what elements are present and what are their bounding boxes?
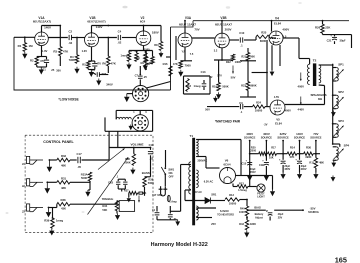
svg-text:SP3: SP3 xyxy=(338,119,344,123)
svg-text:70K: 70K xyxy=(145,62,150,66)
svg-text:25: 25 xyxy=(51,68,55,72)
svg-text:400V: 400V xyxy=(285,109,291,113)
svg-text:6C4: 6C4 xyxy=(140,20,146,24)
svg-text:R16: R16 xyxy=(163,62,168,66)
svg-text:400V: 400V xyxy=(263,132,270,136)
svg-text:R7: R7 xyxy=(129,49,133,53)
svg-text:25V: 25V xyxy=(211,222,216,226)
svg-text:3.2: 3.2 xyxy=(214,50,218,53)
svg-text:*LOW NOISE: *LOW NOISE xyxy=(58,98,79,102)
svg-text:70V: 70V xyxy=(194,27,199,31)
svg-text:340V: 340V xyxy=(106,82,113,86)
svg-text:450V: 450V xyxy=(284,168,290,171)
svg-text:400V: 400V xyxy=(282,28,289,32)
svg-text:.25: .25 xyxy=(143,75,147,79)
svg-text:1800: 1800 xyxy=(250,222,256,226)
svg-text:R33A: R33A xyxy=(81,173,88,177)
svg-text:5000: 5000 xyxy=(134,57,140,60)
svg-text:R36: R36 xyxy=(148,178,153,182)
svg-text:C1B: C1B xyxy=(259,164,264,167)
svg-text:6EU7(12AX7): 6EU7(12AX7) xyxy=(33,20,51,24)
svg-text:*MATCHED PAIR: *MATCHED PAIR xyxy=(215,119,241,123)
svg-text:47K: 47K xyxy=(111,61,116,65)
svg-text:48K: 48K xyxy=(61,164,66,168)
svg-text:SOURCE: SOURCE xyxy=(244,135,256,139)
svg-text:.02: .02 xyxy=(117,41,121,45)
svg-text:50V: 50V xyxy=(205,107,210,111)
svg-text:EL84: EL84 xyxy=(274,22,281,26)
svg-text:BIAS: BIAS xyxy=(254,205,261,209)
svg-text:R14: R14 xyxy=(290,146,296,150)
svg-text:V4: V4 xyxy=(275,16,279,20)
svg-text:6EU7 12AX7: 6EU7 12AX7 xyxy=(179,22,196,26)
svg-text:R31: R31 xyxy=(61,177,67,181)
svg-text:140V: 140V xyxy=(44,26,51,30)
svg-text:SW1: SW1 xyxy=(168,167,174,171)
svg-text:R3: R3 xyxy=(53,50,57,54)
svg-text:SR1: SR1 xyxy=(211,192,217,196)
svg-text:C17: C17 xyxy=(77,152,83,156)
svg-text:400V: 400V xyxy=(298,84,305,88)
svg-text:440V: 440V xyxy=(298,108,305,112)
svg-text:50K: 50K xyxy=(102,208,107,212)
svg-text:300: 300 xyxy=(56,69,61,73)
svg-text:47K: 47K xyxy=(173,62,178,66)
svg-text:C9: C9 xyxy=(239,101,243,105)
svg-text:1M: 1M xyxy=(28,44,33,48)
svg-text:R24: R24 xyxy=(256,100,261,104)
svg-text:+: + xyxy=(295,157,297,161)
svg-text:R11: R11 xyxy=(309,161,314,165)
svg-text:400V: 400V xyxy=(246,132,253,136)
svg-text:V3B: V3B xyxy=(220,16,227,20)
svg-text:SP2: SP2 xyxy=(338,90,344,94)
svg-text:R2: R2 xyxy=(30,59,34,63)
svg-text:C2: C2 xyxy=(69,30,73,34)
svg-text:C19: C19 xyxy=(149,143,154,147)
svg-text:70V: 70V xyxy=(313,132,318,136)
svg-text:R22: R22 xyxy=(226,60,231,64)
svg-text:180V: 180V xyxy=(152,30,159,34)
svg-text:6CA4: 6CA4 xyxy=(223,162,231,166)
svg-text:6EU7 12AX7: 6EU7 12AX7 xyxy=(215,22,232,26)
svg-text:1500: 1500 xyxy=(144,49,150,52)
svg-text:SOURCE: SOURCE xyxy=(294,135,306,139)
svg-text:R19: R19 xyxy=(212,84,217,88)
svg-text:450V: 450V xyxy=(250,171,256,174)
svg-text:1meg: 1meg xyxy=(121,53,128,57)
svg-text:C21: C21 xyxy=(327,38,332,42)
svg-text:R39: R39 xyxy=(44,219,50,223)
svg-text:C15: C15 xyxy=(241,161,246,165)
svg-text:R30: R30 xyxy=(306,146,312,150)
svg-text:165: 165 xyxy=(335,255,347,263)
svg-text:5V AC: 5V AC xyxy=(195,191,202,194)
svg-text:C5: C5 xyxy=(92,68,96,72)
svg-text:48K: 48K xyxy=(319,161,324,165)
svg-text:BASS: BASS xyxy=(142,171,150,175)
svg-text:.02: .02 xyxy=(209,76,213,79)
svg-text:.003: .003 xyxy=(101,72,107,76)
svg-text:300V: 300V xyxy=(301,168,307,171)
svg-text:SP1: SP1 xyxy=(338,63,344,67)
svg-text:R5: R5 xyxy=(82,62,86,66)
svg-text:22K: 22K xyxy=(325,26,330,30)
svg-text:R38: R38 xyxy=(60,198,66,202)
svg-text:470: 470 xyxy=(96,62,101,66)
svg-text:J2: J2 xyxy=(22,184,25,188)
svg-text:1.5meg: 1.5meg xyxy=(238,189,247,192)
svg-text:R26: R26 xyxy=(315,26,321,30)
svg-text:-35V: -35V xyxy=(310,207,316,211)
svg-text:500K: 500K xyxy=(222,84,228,88)
svg-text:TREBLE: TREBLE xyxy=(102,197,114,201)
svg-text:C10: C10 xyxy=(239,31,245,35)
svg-text:R23: R23 xyxy=(241,84,246,88)
svg-text:R32: R32 xyxy=(61,154,67,158)
svg-text:1000: 1000 xyxy=(239,211,245,214)
svg-text:R42: R42 xyxy=(239,222,244,226)
svg-text:48K: 48K xyxy=(61,186,66,190)
svg-text:6EU7(12AX7): 6EU7(12AX7) xyxy=(87,20,105,24)
svg-text:390K: 390K xyxy=(305,155,311,159)
svg-text:CONTROL PANEL: CONTROL PANEL xyxy=(43,140,74,144)
svg-text:1.3V: 1.3V xyxy=(82,49,88,53)
svg-text:C4: C4 xyxy=(118,30,122,34)
svg-text:R13: R13 xyxy=(239,182,244,186)
svg-text:8Ω: 8Ω xyxy=(318,97,323,101)
svg-text:390K: 390K xyxy=(250,84,256,88)
svg-text:LIGHT: LIGHT xyxy=(257,196,265,199)
svg-text:4.5V: 4.5V xyxy=(274,96,279,99)
svg-text:VOLUME: VOLUME xyxy=(130,143,143,147)
svg-text:R18: R18 xyxy=(186,84,191,88)
svg-text:17V: 17V xyxy=(217,74,222,78)
svg-text:140V: 140V xyxy=(296,132,303,136)
svg-text:SOURCE: SOURCE xyxy=(277,135,289,139)
svg-text:TO HEATERS: TO HEATERS xyxy=(217,213,234,217)
svg-text:10K: 10K xyxy=(269,157,274,160)
svg-text:R37: R37 xyxy=(124,190,129,193)
svg-text:C7: C7 xyxy=(135,74,139,78)
svg-text:.02: .02 xyxy=(68,41,72,45)
svg-text:43K: 43K xyxy=(61,207,66,211)
svg-text:30µF: 30µF xyxy=(340,39,346,43)
svg-text:R12: R12 xyxy=(229,193,234,197)
svg-text:200V: 200V xyxy=(225,27,232,31)
svg-text:+: + xyxy=(266,209,268,213)
svg-text:R1: R1 xyxy=(18,44,22,48)
svg-text:SOURCE: SOURCE xyxy=(261,135,273,139)
svg-text:R6: R6 xyxy=(102,61,106,65)
svg-text:EL84: EL84 xyxy=(275,121,282,125)
svg-text:1meg: 1meg xyxy=(56,219,64,223)
svg-text:-2V: -2V xyxy=(264,123,268,126)
svg-text:C13: C13 xyxy=(201,70,206,74)
svg-text:47K: 47K xyxy=(63,50,69,54)
svg-text:1.3V: 1.3V xyxy=(42,49,48,53)
svg-text:R21: R21 xyxy=(241,56,246,59)
svg-text:500K: 500K xyxy=(81,176,87,180)
svg-text:SOURCE: SOURCE xyxy=(310,135,322,139)
svg-text:J1: J1 xyxy=(22,162,25,166)
svg-text:50V: 50V xyxy=(231,75,236,79)
svg-text:6.3V AC: 6.3V AC xyxy=(204,180,214,183)
svg-text:47K: 47K xyxy=(290,155,295,159)
svg-text:90K: 90K xyxy=(250,56,255,59)
svg-text:J3: J3 xyxy=(22,209,25,213)
svg-text:10000: 10000 xyxy=(255,109,263,113)
svg-text:7.5: 7.5 xyxy=(190,53,194,56)
svg-text:25V: 25V xyxy=(278,216,283,219)
svg-text:+: + xyxy=(262,159,264,163)
svg-text:R10: R10 xyxy=(154,44,159,47)
svg-text:790K: 790K xyxy=(69,58,75,62)
svg-text:SOURCE: SOURCE xyxy=(308,211,319,214)
svg-text:+: + xyxy=(330,34,332,38)
svg-text:R25: R25 xyxy=(261,30,267,34)
svg-text:6.3VAC: 6.3VAC xyxy=(220,209,229,213)
svg-text:T1: T1 xyxy=(190,134,194,138)
svg-text:1meg: 1meg xyxy=(194,84,201,88)
svg-text:10000: 10000 xyxy=(229,201,237,205)
svg-text:325V: 325V xyxy=(280,132,287,136)
svg-text:V3A: V3A xyxy=(185,16,192,20)
svg-text:R8: R8 xyxy=(135,49,139,53)
svg-text:8000: 8000 xyxy=(260,39,267,43)
svg-text:R17: R17 xyxy=(271,147,276,150)
svg-text:7000: 7000 xyxy=(185,63,192,67)
svg-text:Adjust: Adjust xyxy=(255,216,263,219)
svg-text:500K: 500K xyxy=(148,181,154,185)
svg-text:C18: C18 xyxy=(108,180,113,184)
svg-text:SP4: SP4 xyxy=(344,143,350,147)
svg-text:1 Amp: 1 Amp xyxy=(169,201,177,204)
svg-text:Harmony Model H-322: Harmony Model H-322 xyxy=(151,242,208,248)
svg-text:+: + xyxy=(279,157,281,161)
svg-text:T2: T2 xyxy=(313,58,317,62)
svg-text:.05: .05 xyxy=(77,165,81,169)
svg-text:OFF: OFF xyxy=(169,175,174,178)
svg-text:2500: 2500 xyxy=(250,150,256,153)
